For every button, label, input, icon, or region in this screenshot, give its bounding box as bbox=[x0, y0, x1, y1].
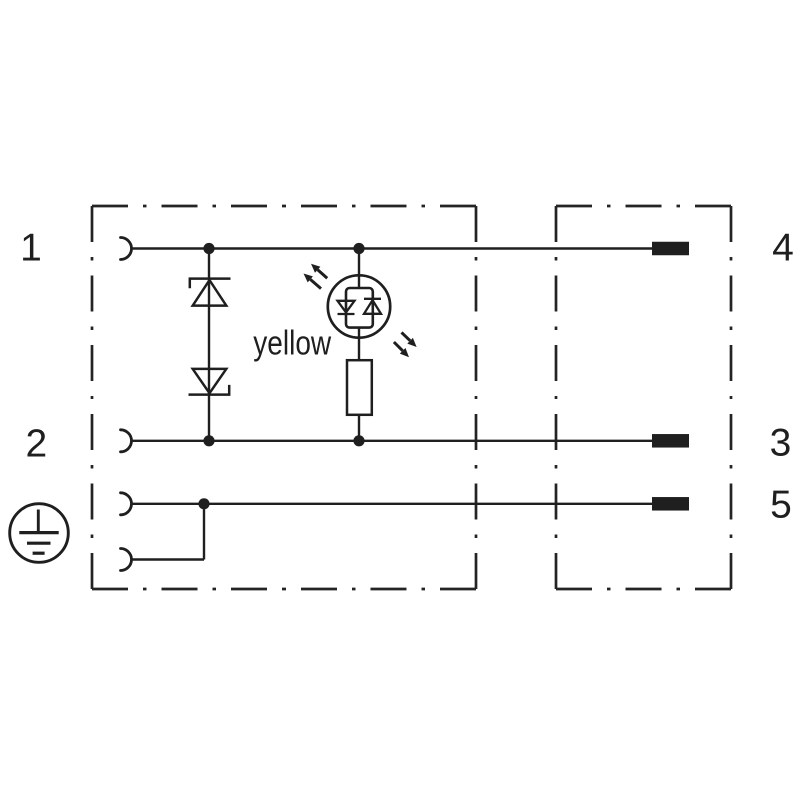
wire earth jumper horizontal bbox=[132, 558, 205, 560]
svg-text:5: 5 bbox=[770, 484, 792, 527]
wire LED branch middle bbox=[358, 328, 360, 361]
terminal block pin 4 bbox=[652, 242, 689, 256]
connector-side enclosure box (dash-dot border) bbox=[556, 206, 731, 589]
wire LED branch bottom bbox=[358, 415, 360, 441]
svg-text:4: 4 bbox=[772, 227, 794, 270]
earth socket contact lower bbox=[121, 549, 132, 571]
svg-text:2: 2 bbox=[26, 423, 48, 466]
wire LED branch top bbox=[358, 249, 360, 289]
dual LED U1 frame bbox=[346, 288, 373, 328]
valve-side enclosure box (dash-dot border) bbox=[92, 206, 476, 589]
pin 1 socket contact bbox=[121, 238, 132, 260]
suppressor diode D2 (lower, cathode down, Z-bar) bbox=[189, 369, 230, 395]
svg-text:3: 3 bbox=[770, 422, 792, 465]
node junction wire2/suppressor bbox=[203, 435, 214, 446]
resistor R1 bbox=[347, 360, 372, 415]
node junction wire2/resistor bbox=[353, 435, 364, 446]
wire earth to terminal 5 bbox=[132, 503, 655, 505]
pin 2 socket contact bbox=[121, 430, 132, 452]
terminal block pin 5 bbox=[652, 497, 689, 511]
svg-text:1: 1 bbox=[20, 227, 42, 270]
suppressor diode D1 (upper, cathode up, Z-bar) bbox=[190, 279, 231, 306]
node junction wire1/LED bbox=[353, 243, 364, 254]
LED light arrow upper 1 bbox=[311, 264, 327, 279]
svg-text:yellow: yellow bbox=[253, 324, 331, 362]
wire suppressor branch vertical bbox=[208, 249, 210, 441]
wire pin1 to terminal 4 bbox=[132, 247, 655, 249]
earth socket contact upper bbox=[121, 493, 132, 515]
dual LED U1 circle bbox=[328, 275, 390, 337]
node junction wire1/suppressor bbox=[203, 243, 214, 254]
protective earth symbol bbox=[10, 504, 69, 563]
dual LED U1 right chip (up) bbox=[364, 299, 381, 314]
LED light arrow lower 1 bbox=[402, 332, 417, 347]
wire earth jumper vertical bbox=[203, 504, 205, 560]
dual LED U1 left chip (down) bbox=[338, 301, 355, 314]
LED light arrow upper 2 bbox=[304, 274, 322, 289]
terminal block pin 3 bbox=[652, 434, 689, 448]
node junction earth jumper bbox=[198, 498, 209, 509]
wire pin2 to terminal 3 bbox=[132, 440, 655, 442]
LED light arrow lower 2 bbox=[394, 342, 409, 357]
